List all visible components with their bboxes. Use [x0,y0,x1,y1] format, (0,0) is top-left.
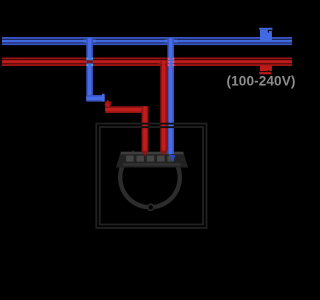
live bus L (red cable, 3-stripe) [2,58,292,67]
wall box (double outline) [96,124,206,228]
neutral bus N (blue cable, 3-stripe) [2,37,292,45]
device U1: terminal cells [123,156,180,166]
wire: switched-live (red) up arrow near N leg end [104,100,111,113]
svg-text:(100-240V): (100-240V) [227,73,296,88]
junction artifacts where N drop crosses live bus (center) [168,58,175,66]
live supply stub (red connector, bottom right) [259,66,272,75]
device U1: round dimmer body (lower arc) [120,152,180,207]
wire: switched-live vertical leg (red) down into box [142,106,149,151]
wire: N drop (blue) from neutral bus to device [164,38,177,154]
wire: L drop (red) from live bus to device [159,61,169,151]
neutral supply stub (blue connector, top right) [259,28,272,41]
junction artifacts where N drop crosses live bus [87,58,93,66]
arrowhead: switched-live into terminal [141,151,148,157]
wire: N horizontal leg (blue) to connector end [86,94,104,102]
box edge crossing marks over wires [141,123,174,128]
device U1: bottom notch [148,204,154,210]
device U1: terminal block [116,152,188,168]
arrowhead: L into terminal [160,151,167,157]
arrowhead: N into terminal (angled) [169,154,176,162]
wire: N drop (blue) from neutral bus at x~89 [83,38,96,102]
junction dots at L drop / live bus junction [161,58,167,66]
wire: switched-live horizontal leg (red) [105,106,148,113]
